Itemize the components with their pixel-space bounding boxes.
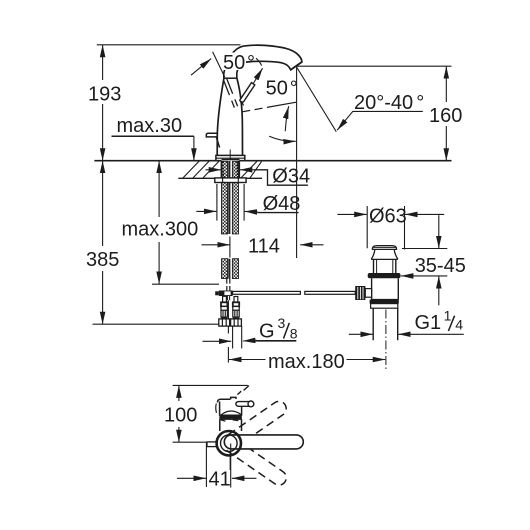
top view: body ring outer [217, 431, 241, 455]
spout outline [224, 45, 302, 73]
lever axis horizontal reference (dash then solid) [242, 107, 267, 111]
160 top extension line [297, 65, 452, 67]
35-45 cap-top extension line [402, 248, 447, 250]
waste union nut [371, 304, 398, 309]
deck line [94, 160, 451, 162]
top view: spout ghost dashes [237, 386, 249, 395]
hose connector nipples [223, 296, 227, 302]
deck underside line [178, 177, 262, 179]
top view: left silhouette arc [215, 404, 218, 413]
hose-end extension line (385 bottom) [93, 323, 219, 325]
Ø63 extension lines [367, 206, 404, 250]
50deg no.1 arc arrow left [191, 59, 211, 76]
hose connector right [231, 302, 242, 326]
svg-text:Ø63: Ø63 [369, 206, 407, 228]
svg-text:max.30: max.30 [117, 115, 183, 137]
ghost lever axis extension [213, 52, 225, 77]
top view: marks below band [221, 420, 239, 421]
svg-text:20°-40: 20°-40 [354, 92, 413, 114]
faucet body outline [217, 78, 242, 155]
rod guide below tee [227, 296, 229, 300]
horizontal pop-up rod (with break) [233, 291, 301, 294]
41 extension lines [206, 443, 230, 487]
svg-text:35-45: 35-45 [415, 255, 466, 277]
top view: mini body outline [218, 397, 242, 415]
top view: mini lever capsule [236, 402, 250, 407]
waste union black band [370, 300, 399, 304]
svg-text:4: 4 [455, 317, 463, 333]
svg-text:160: 160 [429, 105, 462, 127]
G3/8 label underline [253, 340, 297, 342]
svg-text:Ø48: Ø48 [263, 193, 301, 215]
G1 1/4 dimension arrows [349, 333, 373, 335]
top view: 100 bottom extension line [173, 441, 216, 443]
faucet centerline upper [229, 150, 231, 161]
braided hoses lower section [222, 259, 228, 279]
deck hatching right [241, 161, 262, 178]
G1 1/4 fraction slash [448, 316, 454, 331]
hose tails [227, 279, 230, 291]
pop-up rod upper [228, 161, 230, 234]
svg-text:max.180: max.180 [268, 351, 345, 373]
top view: dashed pill up-right [222, 398, 289, 450]
svg-text:°: ° [247, 52, 255, 74]
threaded shank walls [221, 161, 239, 178]
20-40deg label leader [340, 111, 423, 126]
svg-text:3: 3 [278, 315, 286, 331]
top view: dashed pill down-right [222, 436, 289, 488]
braided hoses upper section [222, 161, 228, 234]
faucet neck stubs [224, 73, 237, 78]
lever axis extension with arrowhead [253, 68, 262, 83]
max.300 dimension line [158, 161, 160, 217]
rubber gasket [368, 273, 401, 278]
svg-text:50: 50 [266, 78, 288, 100]
top view: body ring inner [221, 435, 238, 452]
mounting nut [215, 178, 246, 183]
spout top extension line [97, 44, 241, 46]
top view: stub left of ring [207, 442, 217, 447]
Ø48 extension lines [217, 184, 244, 221]
svg-text:100: 100 [164, 405, 197, 427]
Ø63 dimension arrows [337, 213, 366, 215]
svg-text:114: 114 [248, 236, 280, 258]
50deg no.1 arc right [256, 58, 262, 65]
tee left cap [215, 291, 219, 295]
top view: 100 top extension line [173, 384, 248, 386]
shank thread pattern [223, 162, 238, 178]
neck joint tick [224, 77, 237, 79]
top view: centerline vertical [230, 444, 232, 488]
max.180 dimension line left arrow [229, 359, 266, 361]
20-40deg direction line [297, 68, 336, 132]
max.30 underline and leader [112, 135, 194, 137]
pop-up knob tab at rear of body [206, 133, 219, 147]
knurled knob [355, 286, 365, 300]
20-40deg swing arc with right arrow [269, 136, 296, 141]
svg-text:1: 1 [444, 307, 452, 323]
waste tailpipe [373, 308, 398, 340]
dimension 160 vertical line [445, 66, 447, 102]
Ø34 dimension arrows and leader [206, 169, 222, 171]
svg-text:G1: G1 [415, 312, 442, 334]
waste upper body [374, 259, 396, 273]
pop-up rod lower [228, 259, 230, 279]
svg-text:°: ° [416, 92, 424, 114]
waste flare cone [371, 250, 398, 260]
svg-text:193: 193 [88, 84, 121, 106]
svg-text:41: 41 [209, 469, 231, 491]
top view: lever pill solid [224, 435, 303, 449]
svg-text:Ø34: Ø34 [272, 166, 310, 188]
G3/8 thread pipe [233, 326, 242, 348]
faucet base plate [216, 155, 245, 160]
41 dimension arrows [177, 477, 206, 479]
waste lower body [372, 278, 399, 299]
pop-up waste cap [372, 246, 396, 250]
dimension 100 vertical line [178, 385, 180, 401]
max.180 dimension line right arrow [347, 359, 386, 361]
top view: cartridge dome lens [221, 411, 242, 415]
dimension 193 vertical line [102, 45, 104, 80]
svg-text:50: 50 [223, 52, 245, 74]
text halo for 50 deg label [221, 53, 247, 71]
114 extension line stub [229, 237, 231, 258]
deck hatching left [183, 161, 219, 178]
top view: lower mini body [220, 419, 242, 431]
ghost lever closed position (dashed) [224, 79, 238, 108]
waste centerline [385, 310, 387, 372]
svg-text:8: 8 [290, 326, 298, 342]
svg-text:max.300: max.300 [122, 219, 199, 241]
50deg no.2 arc with up arrow [285, 106, 288, 131]
spout outlet vertical extension line [296, 66, 298, 258]
pop-up rod tee joint [219, 291, 233, 297]
G 3/8 fraction slash [284, 323, 290, 339]
G3/8 dimension arrows [203, 340, 232, 342]
Ø48 dimension arrows and leader [196, 210, 216, 212]
35-45 gasket leader with left arrow [401, 275, 447, 277]
lever handle (open position) [240, 83, 255, 103]
hose tail extension line (max.300 bottom) [152, 283, 219, 285]
top view: joint band [219, 414, 241, 419]
dimension 385 vertical line [102, 161, 104, 246]
svg-text:385: 385 [86, 249, 119, 271]
spout outlet face [291, 62, 302, 70]
35-45 dimension arrows [438, 215, 440, 248]
lever pivot detail [242, 101, 244, 106]
hose connector left [219, 302, 230, 326]
svg-text:G: G [259, 321, 275, 343]
114 dimension arrows [202, 244, 230, 246]
knob stem [365, 289, 371, 298]
svg-text:°: ° [290, 78, 298, 100]
